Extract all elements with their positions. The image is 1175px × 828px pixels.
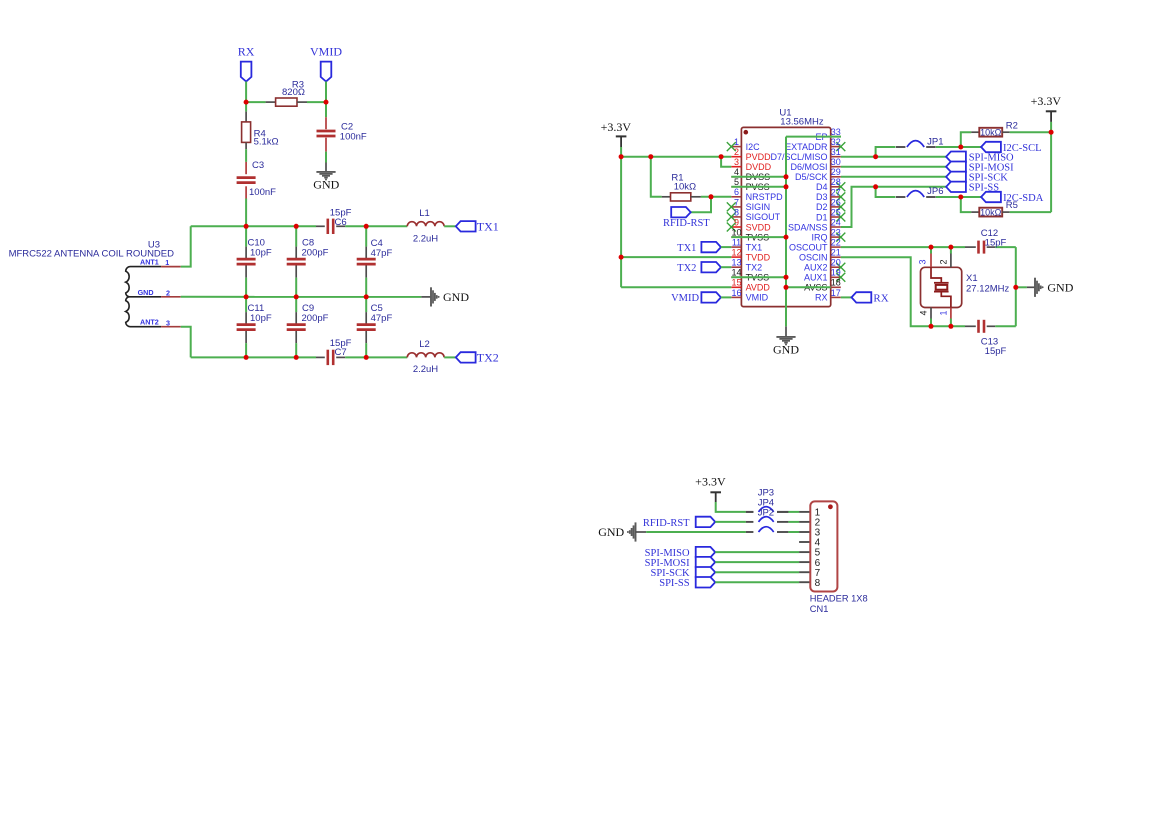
svg-text:10pF: 10pF <box>250 248 272 259</box>
svg-text:EXTADDR: EXTADDR <box>785 142 828 152</box>
svg-text:SDA/NSS: SDA/NSS <box>788 222 828 232</box>
svg-text:22: 22 <box>831 238 841 248</box>
svg-text:R2: R2 <box>1006 120 1018 131</box>
svg-text:D1: D1 <box>816 212 828 222</box>
svg-text:23: 23 <box>831 228 841 238</box>
svg-text:VMID: VMID <box>746 293 769 303</box>
svg-text:32: 32 <box>831 137 841 147</box>
svg-text:+3.3V: +3.3V <box>695 475 726 489</box>
svg-text:47pF: 47pF <box>371 313 393 324</box>
svg-text:25: 25 <box>831 207 841 217</box>
svg-text:1: 1 <box>939 310 949 315</box>
svg-text:HEADER 1X8: HEADER 1X8 <box>810 594 868 604</box>
svg-text:5: 5 <box>734 177 739 187</box>
svg-text:2.2uH: 2.2uH <box>413 364 438 375</box>
svg-text:OSCOUT: OSCOUT <box>789 242 828 252</box>
svg-text:13: 13 <box>731 258 741 268</box>
svg-text:+3.3V: +3.3V <box>1031 94 1062 108</box>
svg-text:18: 18 <box>831 278 841 288</box>
svg-text:2: 2 <box>166 288 170 297</box>
svg-text:NRSTPD: NRSTPD <box>746 192 784 202</box>
svg-text:5.1kΩ: 5.1kΩ <box>254 136 279 147</box>
svg-text:200pF: 200pF <box>302 248 329 259</box>
svg-text:RFID-RST: RFID-RST <box>643 518 690 529</box>
svg-text:6: 6 <box>734 187 739 197</box>
svg-text:TX1: TX1 <box>477 219 499 233</box>
svg-text:10kΩ: 10kΩ <box>980 207 1002 217</box>
svg-text:SPI-SS: SPI-SS <box>969 183 1000 194</box>
svg-text:200pF: 200pF <box>302 313 329 324</box>
svg-text:JP2: JP2 <box>758 507 774 518</box>
svg-text:JP1: JP1 <box>927 136 943 147</box>
svg-text:JP6: JP6 <box>927 186 943 197</box>
svg-text:33: 33 <box>831 127 841 137</box>
svg-text:RX: RX <box>238 44 255 58</box>
svg-text:47pF: 47pF <box>371 248 393 259</box>
svg-text:10pF: 10pF <box>250 313 272 324</box>
svg-text:4: 4 <box>919 310 929 315</box>
svg-text:VMID: VMID <box>310 44 342 58</box>
svg-text:27.12MHz: 27.12MHz <box>966 283 1010 294</box>
svg-text:CN1: CN1 <box>810 604 829 614</box>
svg-text:29: 29 <box>831 167 841 177</box>
svg-text:GND: GND <box>443 290 469 304</box>
svg-text:31: 31 <box>831 147 841 157</box>
svg-text:3: 3 <box>734 157 739 167</box>
svg-text:16: 16 <box>731 288 741 298</box>
svg-text:27: 27 <box>831 187 841 197</box>
svg-text:14: 14 <box>731 268 741 278</box>
svg-text:15pF: 15pF <box>985 346 1007 357</box>
svg-text:VMID: VMID <box>671 293 699 304</box>
svg-text:D4: D4 <box>816 182 828 192</box>
svg-text:24: 24 <box>831 217 841 227</box>
svg-text:2: 2 <box>734 147 739 157</box>
svg-text:PVDD: PVDD <box>746 152 772 162</box>
svg-text:ANT2: ANT2 <box>140 318 159 327</box>
svg-text:D2: D2 <box>816 202 828 212</box>
svg-text:TX2: TX2 <box>677 263 696 274</box>
svg-text:OSCIN: OSCIN <box>799 253 828 263</box>
svg-text:2.2uH: 2.2uH <box>413 233 438 244</box>
svg-text:D5/SCK: D5/SCK <box>795 172 828 182</box>
svg-text:GND: GND <box>598 525 624 539</box>
svg-text:12: 12 <box>731 248 741 258</box>
svg-text:AUX2: AUX2 <box>804 263 828 273</box>
svg-text:+3.3V: +3.3V <box>601 120 632 134</box>
svg-text:SPI-SS: SPI-SS <box>659 578 690 589</box>
svg-text:RX: RX <box>873 292 888 304</box>
svg-text:4: 4 <box>734 167 739 177</box>
svg-text:820Ω: 820Ω <box>282 87 305 98</box>
svg-text:SIGIN: SIGIN <box>746 202 771 212</box>
svg-text:I2C: I2C <box>746 142 761 152</box>
svg-text:19: 19 <box>831 268 841 278</box>
svg-text:C6: C6 <box>335 217 347 228</box>
svg-text:15: 15 <box>731 278 741 288</box>
svg-text:TVDD: TVDD <box>746 252 771 262</box>
svg-text:TX2: TX2 <box>746 263 763 273</box>
svg-text:10kΩ: 10kΩ <box>674 182 696 193</box>
svg-text:100nF: 100nF <box>340 132 367 143</box>
svg-text:ANT1: ANT1 <box>140 258 159 267</box>
svg-text:L1: L1 <box>419 208 430 219</box>
svg-text:AVDD: AVDD <box>746 283 771 293</box>
svg-text:C7: C7 <box>335 347 347 358</box>
svg-text:30: 30 <box>831 157 841 167</box>
svg-text:1: 1 <box>165 258 169 267</box>
svg-text:D7/SCL/MISO: D7/SCL/MISO <box>770 152 827 162</box>
svg-text:1: 1 <box>734 137 739 147</box>
svg-text:10: 10 <box>731 228 741 238</box>
svg-text:20: 20 <box>831 258 841 268</box>
svg-text:10kΩ: 10kΩ <box>980 127 1002 137</box>
svg-text:DVDD: DVDD <box>746 162 772 172</box>
svg-text:8: 8 <box>734 207 739 217</box>
svg-text:9: 9 <box>734 217 739 227</box>
svg-text:GND: GND <box>1047 281 1073 295</box>
svg-text:TX2: TX2 <box>477 351 499 365</box>
svg-text:RFID-RST: RFID-RST <box>663 218 710 229</box>
svg-text:D3: D3 <box>816 192 828 202</box>
svg-text:TX1: TX1 <box>746 242 763 252</box>
svg-text:IRQ: IRQ <box>811 232 827 242</box>
svg-text:L2: L2 <box>419 339 430 350</box>
svg-text:RX: RX <box>815 293 828 303</box>
svg-text:3: 3 <box>166 318 170 327</box>
svg-text:13.56MHz: 13.56MHz <box>780 117 824 128</box>
svg-text:SVDD: SVDD <box>746 222 772 232</box>
svg-text:26: 26 <box>831 197 841 207</box>
svg-text:17: 17 <box>831 288 841 298</box>
svg-text:3: 3 <box>918 259 928 264</box>
svg-text:21: 21 <box>831 248 841 258</box>
svg-text:SIGOUT: SIGOUT <box>746 212 781 222</box>
svg-text:AUX1: AUX1 <box>804 273 828 283</box>
svg-text:15pF: 15pF <box>985 237 1007 248</box>
svg-text:8: 8 <box>815 578 821 589</box>
svg-text:D6/MOSI: D6/MOSI <box>790 162 827 172</box>
svg-text:C3: C3 <box>252 160 264 171</box>
svg-text:100nF: 100nF <box>249 187 276 198</box>
svg-text:TX1: TX1 <box>677 243 696 254</box>
svg-text:11: 11 <box>732 238 741 248</box>
svg-text:GND: GND <box>138 288 154 297</box>
svg-text:7: 7 <box>734 197 739 207</box>
svg-text:28: 28 <box>831 177 841 187</box>
svg-text:2: 2 <box>939 259 949 264</box>
svg-text:R5: R5 <box>1006 200 1018 211</box>
